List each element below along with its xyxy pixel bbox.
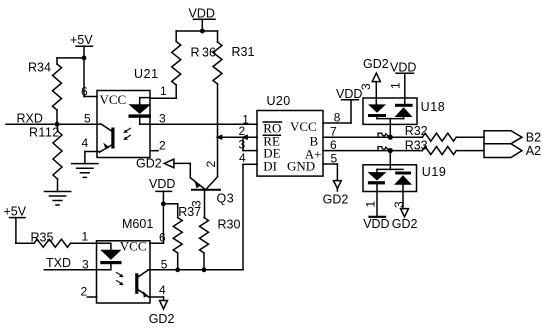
ground GD2 down-arrow (below U19): [392, 209, 418, 231]
svg-text:M601: M601: [122, 217, 153, 231]
power VDD bar (below U19): [363, 217, 389, 231]
svg-text:B2: B2: [526, 131, 541, 145]
svg-text:6: 6: [159, 231, 166, 245]
svg-text:U21: U21: [134, 67, 159, 81]
node junction A row / U19: [388, 148, 393, 153]
svg-text:U19: U19: [422, 165, 447, 179]
node GD2 flag (left of Q3): [136, 157, 174, 171]
svg-text:3: 3: [359, 83, 373, 90]
svg-text:DI: DI: [263, 159, 277, 174]
light arrows U21: [123, 128, 130, 140]
svg-text:1: 1: [82, 230, 89, 244]
svg-text:R31: R31: [232, 45, 255, 59]
node junction +5V/R34: [82, 56, 87, 61]
svg-text:A2: A2: [526, 144, 541, 158]
node junction R30 bottom: [202, 267, 207, 272]
diode pack U18: [363, 98, 417, 137]
svg-text:VCC: VCC: [120, 238, 147, 253]
ground GD2 flag under U20 pin5: [323, 181, 349, 207]
svg-text:R33: R33: [405, 138, 428, 152]
svg-text:R32: R32: [405, 124, 428, 138]
light arrows M601: [116, 273, 123, 286]
resistor R31: [213, 31, 254, 84]
power VDD (above pin8): [336, 87, 362, 101]
node arrow junction at RE/DE tie: [241, 134, 248, 140]
power VDD (above U18): [390, 61, 416, 104]
wire M601 pin2 stub: [87, 296, 96, 298]
wire +5V to R34: [57, 57, 84, 59]
wire curl mark B row: [378, 133, 389, 137]
wire VDD rail: [176, 30, 217, 32]
node arrow junction at R31 line: [216, 134, 223, 140]
wire DE pin3: [243, 150, 257, 152]
wire +5V to R35: [16, 218, 34, 244]
connector B2 pin: [484, 131, 541, 145]
svg-text:GND: GND: [287, 159, 315, 174]
diode LED M601: [97, 243, 122, 270]
svg-text:R37: R37: [178, 205, 201, 219]
wire VDD node to R37: [163, 204, 177, 218]
wire RXD to U21 pin5: [6, 123, 97, 125]
transistor photo U21: [97, 124, 115, 152]
wire VDD down: [201, 19, 203, 31]
resistor R33: [405, 138, 457, 154]
wire M601 pin5 row to DI: [150, 269, 243, 271]
svg-text:U20: U20: [267, 94, 291, 108]
svg-text:TXD: TXD: [46, 256, 71, 270]
svg-text:RXD: RXD: [17, 112, 43, 126]
connector A2 pin: [484, 144, 541, 158]
svg-text:2: 2: [81, 285, 88, 299]
wire U21 pin4 to ground: [85, 152, 97, 164]
svg-text:3: 3: [159, 112, 166, 126]
svg-text:3: 3: [392, 201, 406, 208]
svg-text:R112: R112: [29, 126, 60, 140]
svg-text:GD2: GD2: [149, 312, 175, 326]
diode LED U21: [129, 98, 152, 125]
power VDD (above M601): [149, 177, 175, 191]
svg-text:2: 2: [204, 161, 218, 168]
node junction R37 bottom: [175, 267, 180, 272]
svg-text:VCC: VCC: [290, 119, 317, 134]
resistor R30: [200, 218, 241, 270]
node junction B row / U18: [388, 135, 393, 140]
svg-text:4: 4: [239, 151, 246, 165]
ground GD2 up-arrow to U18 pin3: [372, 73, 380, 104]
ground GD2 down-arrow (below M601): [149, 301, 175, 327]
wire VDD down to M601 pin6: [150, 191, 163, 243]
transistor Q3: [190, 177, 220, 218]
svg-text:4: 4: [82, 136, 89, 150]
wire R31 bottom to Q3 collector: [217, 84, 219, 177]
wire GND pin5 down: [323, 164, 337, 181]
wire M601 pin4 to GD2: [150, 297, 164, 301]
node VDD rail junction: [200, 29, 205, 34]
svg-text:GD2: GD2: [323, 193, 349, 207]
svg-text:5: 5: [84, 112, 91, 126]
wire U21 pin3 to U20 RO: [150, 123, 257, 125]
svg-text:R30: R30: [218, 218, 241, 232]
svg-text:1: 1: [389, 82, 403, 89]
resistor R32: [405, 124, 457, 141]
svg-text:4: 4: [159, 283, 166, 297]
wire DI pin4: [243, 164, 257, 269]
svg-text:Q3: Q3: [217, 191, 235, 205]
wire U21 pin1 to R36: [150, 97, 176, 99]
wire GD2 to Q3 emitter: [174, 163, 190, 177]
svg-text:VDD: VDD: [363, 217, 389, 231]
node junction VDD/R37: [161, 201, 166, 206]
power +5V (bottom): [4, 205, 27, 219]
wire RE/DE node to U20 pin2: [218, 136, 258, 138]
node RXD/R34/R112 junction: [55, 122, 60, 127]
resistor R34: [28, 58, 62, 124]
optocoupler U21 box: [97, 91, 150, 158]
svg-text:R34: R34: [28, 61, 51, 75]
ground under R112: [44, 192, 70, 206]
wire RE-DE tie vertical: [242, 137, 244, 150]
svg-text:7: 7: [330, 125, 337, 139]
svg-text:GD2: GD2: [392, 217, 418, 231]
svg-text:VDD: VDD: [390, 61, 416, 75]
IC U20 box: [257, 111, 323, 177]
resistor R37: [173, 205, 201, 270]
ground under U21 pin4: [72, 164, 98, 178]
svg-text:VDD: VDD: [189, 7, 215, 21]
svg-text:U18: U18: [421, 100, 446, 114]
resistor R112: [29, 124, 62, 191]
svg-text:3: 3: [239, 138, 246, 152]
svg-text:1: 1: [160, 84, 167, 98]
transistor photo M601: [135, 270, 150, 298]
svg-text:+5V: +5V: [4, 205, 27, 219]
optocoupler M601 box: [97, 238, 151, 303]
IC U20 pin names: [263, 119, 321, 174]
wire curl mark A row: [378, 147, 389, 151]
resistor R35: [31, 231, 97, 248]
wire U21 pin2 stub: [150, 150, 158, 152]
wire A row: [323, 150, 484, 152]
wire +5V vertical to pin6: [84, 46, 97, 96]
power VDD (top): [189, 7, 216, 21]
power +5V (top): [70, 33, 93, 47]
svg-text:2: 2: [159, 139, 166, 153]
svg-text:GD2: GD2: [363, 57, 389, 71]
wire TXD to M601 pin3: [44, 269, 96, 271]
svg-text:VCC: VCC: [100, 92, 127, 107]
resistor R36: [172, 31, 216, 98]
svg-text:+5V: +5V: [70, 33, 93, 47]
diode pack U19: [363, 165, 417, 216]
svg-text:1: 1: [364, 201, 378, 208]
wire B row: [323, 136, 484, 138]
svg-text:GD2: GD2: [136, 157, 162, 171]
svg-text:6: 6: [81, 85, 88, 99]
wire pin8 to VDD: [323, 100, 351, 123]
wire A row to U19: [389, 151, 391, 170]
svg-text:VDD: VDD: [149, 177, 175, 191]
